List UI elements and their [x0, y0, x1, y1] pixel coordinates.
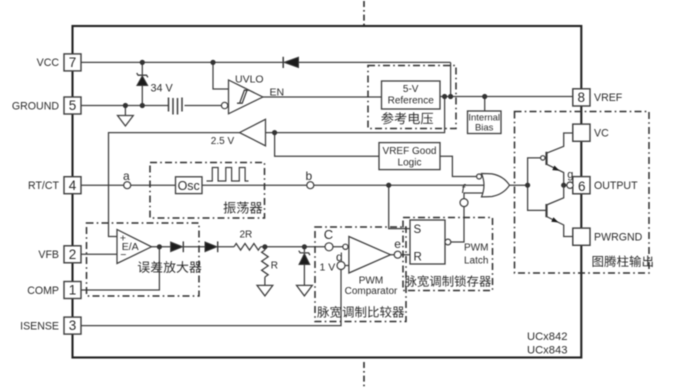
- wire VCC rail: [81, 61, 451, 63]
- label totem pole chinese: [593, 256, 603, 267]
- IC outer border: [73, 26, 582, 358]
- pin VC: [573, 124, 590, 141]
- dash-dot box reference: [368, 66, 456, 129]
- svg-text:RT/CT: RT/CT: [28, 180, 60, 192]
- pin 6: [573, 177, 590, 194]
- wire zener 34V branch: [141, 62, 143, 74]
- node b: [307, 182, 314, 189]
- OR gate input bubble: [477, 174, 482, 179]
- pin 2 VFB: [64, 246, 81, 263]
- OR gate: [482, 174, 510, 197]
- svg-text:g: g: [567, 169, 573, 181]
- label oscillator chinese: [223, 202, 235, 214]
- svg-text:GROUND: GROUND: [12, 100, 59, 112]
- svg-text:PWRGND: PWRGND: [594, 232, 643, 244]
- junction output node: [561, 183, 566, 188]
- ground symbol at GROUND pin: [118, 116, 134, 127]
- label reference chinese: [381, 112, 393, 124]
- dash-dot box PWM latch: [403, 218, 493, 291]
- wire between diodes: [184, 246, 205, 248]
- block Osc: [176, 177, 203, 194]
- wire 2.5V buffer output to E/A noninverting input: [109, 133, 240, 237]
- svg-text:Comparator: Comparator: [345, 286, 398, 297]
- wire UVLO supply tap: [213, 62, 229, 89]
- dash-dot box PWM comparator: [315, 227, 406, 322]
- svg-text:OUTPUT: OUTPUT: [594, 180, 638, 192]
- wire VREF rail: [440, 96, 573, 98]
- label pwm comparator chinese: [317, 306, 329, 318]
- junction 2R-R: [262, 244, 267, 249]
- ground symbol below zener: [297, 285, 313, 296]
- wire totem drive bracket: [528, 158, 547, 211]
- wire EN: [262, 96, 382, 98]
- svg-text:5: 5: [69, 98, 77, 113]
- svg-text:Osc: Osc: [178, 179, 200, 193]
- op-amp E/A: [117, 230, 152, 264]
- node e: [394, 251, 401, 258]
- wire latch output to OR gate: [451, 193, 483, 242]
- svg-text:5-V: 5-V: [403, 84, 419, 95]
- svg-text:EN: EN: [270, 87, 285, 99]
- UVLO comparator U1: [221, 102, 227, 108]
- svg-text:2.5 V: 2.5 V: [211, 136, 235, 147]
- wire ISENSE to comparator: [81, 266, 349, 326]
- fold mark bottom: [363, 362, 365, 389]
- svg-text:b: b: [306, 169, 313, 183]
- wire output node to pin: [564, 184, 567, 186]
- svg-text:UCx843: UCx843: [527, 345, 567, 357]
- wire RT/CT rail: [81, 184, 484, 186]
- svg-text:C: C: [324, 227, 333, 242]
- block 5-V Reference: [382, 81, 441, 109]
- node a: [124, 182, 131, 189]
- pin 7 VCC: [64, 54, 81, 71]
- svg-text:7: 7: [69, 55, 77, 70]
- wire upper transistor base: [545, 157, 546, 159]
- diode D2: [171, 242, 183, 252]
- svg-text:1: 1: [69, 283, 77, 298]
- zener diode 1 V clamp: [299, 251, 310, 255]
- pin 1 COMP: [64, 282, 81, 299]
- wire GROUND rail: [81, 105, 168, 107]
- junction zener: [302, 244, 307, 249]
- diode D3: [205, 242, 217, 252]
- svg-text:2R: 2R: [240, 230, 253, 241]
- block VREF Good Logic: [379, 143, 440, 170]
- latch S-R: [410, 220, 445, 264]
- wire oscillator clock to latch S input: [389, 185, 410, 228]
- label error amp chinese: [138, 261, 150, 273]
- pin 3 ISENSE: [64, 317, 81, 334]
- wire internal bias stub: [484, 97, 486, 112]
- wire comparator output to latch R: [391, 254, 411, 256]
- wire to VREF Good Logic input: [275, 133, 379, 157]
- svg-text:COMP: COMP: [27, 285, 59, 297]
- node g: [567, 182, 573, 188]
- buffer 2.5 V: [240, 119, 266, 146]
- wire ground stub: [124, 106, 126, 116]
- transistor Q2 lower: [545, 204, 547, 217]
- junction OR output: [525, 183, 530, 188]
- svg-text:Logic: Logic: [398, 157, 422, 168]
- fold mark top: [363, 1, 365, 26]
- latch output bubble: [445, 239, 451, 245]
- capacitor C1: [168, 98, 170, 112]
- pin 5 GROUND: [64, 97, 81, 114]
- svg-text:PWM: PWM: [464, 243, 488, 254]
- svg-text:VREF: VREF: [594, 92, 623, 104]
- svg-text:UCx842: UCx842: [527, 331, 567, 343]
- svg-text:e: e: [394, 237, 401, 251]
- ground symbol below R: [257, 285, 273, 296]
- pin 8: [573, 89, 590, 106]
- svg-text:Latch: Latch: [464, 256, 488, 267]
- wire zener 1V branch: [303, 247, 305, 252]
- svg-text:3: 3: [69, 318, 77, 333]
- node C: [325, 243, 333, 251]
- comparator PWM: [343, 244, 348, 249]
- svg-text:Reference: Reference: [388, 96, 435, 107]
- svg-text:6: 6: [578, 179, 586, 194]
- pin 4 RT/CT: [64, 177, 81, 194]
- svg-text:a: a: [123, 169, 130, 183]
- block Internal Bias: [468, 111, 502, 134]
- transistor Q1 upper: [545, 152, 547, 165]
- svg-text:1 V: 1 V: [320, 261, 336, 273]
- dash-dot box oscillator: [150, 163, 265, 219]
- svg-text:8: 8: [578, 90, 586, 105]
- wire 2R to comparator: [261, 246, 343, 248]
- svg-text:2: 2: [69, 247, 77, 262]
- pin PWRGND: [573, 228, 590, 245]
- wire diode to 2R: [218, 246, 234, 248]
- dash-dot box totem pole: [515, 112, 650, 274]
- dash-dot box error amplifier: [87, 223, 200, 296]
- resistor R: [262, 250, 269, 277]
- zener diode 34 V: [137, 73, 148, 77]
- svg-text:VREF Good: VREF Good: [383, 146, 437, 157]
- resistor 2R: [234, 244, 261, 251]
- diode D1 VREF-to-VCC: [284, 57, 299, 67]
- svg-text:R: R: [271, 261, 278, 272]
- svg-text:VFB: VFB: [38, 249, 59, 261]
- junction E/A output: [157, 244, 162, 249]
- svg-text:ISENSE: ISENSE: [20, 320, 59, 332]
- svg-text:R: R: [414, 252, 422, 264]
- wire VFB to E/A inverting input: [81, 253, 117, 255]
- wire R resistor to ground: [264, 247, 266, 250]
- svg-text:34 V: 34 V: [151, 83, 174, 95]
- svg-text:d: d: [336, 250, 343, 264]
- wire OR output: [510, 184, 528, 186]
- svg-text:VCC: VCC: [37, 57, 60, 69]
- svg-text:VC: VC: [594, 128, 609, 140]
- svg-text:E/A: E/A: [122, 241, 139, 253]
- wire 5V to 2.5V buffer: [266, 97, 445, 133]
- node d: [337, 262, 345, 270]
- junction dots: [210, 60, 215, 65]
- svg-text:Bias: Bias: [475, 123, 494, 134]
- upper drive bubble: [541, 156, 545, 160]
- label pwm latch chinese: [405, 275, 417, 286]
- clock waveform: [207, 168, 249, 182]
- wire VREF Good Logic output to OR gate: [440, 156, 477, 176]
- svg-text:4: 4: [69, 178, 77, 193]
- svg-text:UVLO: UVLO: [235, 73, 264, 85]
- wire E/A output to COMP: [81, 247, 159, 290]
- svg-text:S: S: [414, 224, 422, 236]
- wire E/A output: [152, 246, 171, 248]
